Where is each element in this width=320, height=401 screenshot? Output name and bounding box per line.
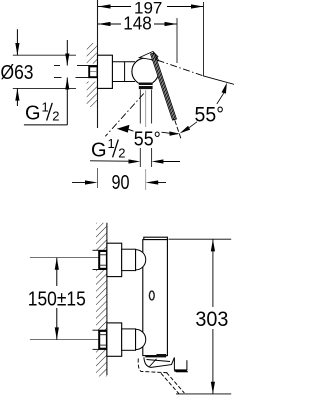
- svg-text:1: 1: [108, 136, 115, 151]
- G1/2 outlet leader + arrows: [90, 159, 180, 163]
- dimension D63 extension lines: [13, 55, 76, 88]
- wall hatch top view: [87, 43, 98, 107]
- outlet assembly (bottom view): [144, 354, 188, 372]
- outlet dashed coupling outline: [138, 359, 184, 394]
- dimension 150+-15: [55, 258, 59, 340]
- lever dash-dot up position: [158, 60, 235, 84]
- extension line x=177: [176, 18, 178, 63]
- svg-text:2: 2: [52, 109, 59, 124]
- top union escutcheon: [107, 243, 122, 276]
- dimension 197 text: [134, 0, 162, 17]
- svg-text:148: 148: [123, 14, 152, 34]
- angle 55 right label: [195, 104, 225, 127]
- pipe behind wall bottom inlet: [93, 330, 107, 349]
- svg-text:150±15: 150±15: [28, 288, 86, 311]
- escutcheon (top view): [98, 55, 113, 88]
- wall line top view: [97, 0, 99, 188]
- svg-text:303: 303: [195, 308, 228, 331]
- inlet thread block (top view): [89, 66, 97, 77]
- inlet centerline bottom (150 ext): [30, 339, 100, 341]
- body cylinder (top view): [112, 62, 135, 82]
- G1/2 leader (inlet label): [24, 78, 67, 125]
- G1/2 label (outlet): [91, 136, 125, 161]
- G1/2 text (inlet): [25, 99, 59, 124]
- dimension 148 line: [98, 22, 177, 26]
- dimension D63 arrows: [15, 29, 19, 106]
- bottom union dome: [136, 329, 146, 349]
- inlet pipe behind wall (top view): [86, 66, 98, 78]
- dimension 303 text: [195, 308, 228, 331]
- dimension 150+-15 text: [28, 288, 86, 311]
- svg-text:Ø63: Ø63: [1, 62, 34, 84]
- lever axis extension dashed: [175, 120, 182, 139]
- cartridge ball (top view): [132, 58, 159, 85]
- bottom union escutcheon: [107, 323, 122, 356]
- inlet centerline top (150 ext): [30, 257, 100, 259]
- dimension 303: [169, 239, 232, 394]
- outlet centerline gray: [145, 90, 147, 190]
- extension line x=203.5: [203, 2, 205, 77]
- pipe behind wall top inlet: [93, 250, 107, 269]
- top union dome: [136, 250, 146, 270]
- svg-text:G: G: [91, 140, 107, 162]
- svg-text:G: G: [25, 103, 41, 125]
- dimension D63 text: [1, 62, 34, 84]
- top union nut: [122, 249, 136, 270]
- lever handle solid (top view): [139, 51, 176, 120]
- dimension 90: [72, 180, 166, 184]
- svg-text:55°: 55°: [134, 129, 161, 151]
- outlet nut under ball (top view): [139, 83, 153, 90]
- svg-text:90: 90: [112, 172, 130, 194]
- thread block bottom inlet: [99, 331, 107, 349]
- bottom union nut: [122, 329, 136, 350]
- thread block top inlet: [99, 251, 107, 269]
- angle 55 left arcs + arrows: [117, 125, 180, 136]
- angle 55 left label: [134, 129, 161, 151]
- dimension 148 text: [123, 14, 152, 34]
- wall hatch bottom view: [96, 223, 107, 377]
- dimension 197 line: [98, 4, 204, 8]
- angle 55 right arcs + arrows: [180, 83, 227, 134]
- svg-text:1: 1: [42, 99, 49, 114]
- body (bottom view): [143, 237, 168, 355]
- wall line bottom view: [106, 223, 108, 375]
- grohe logo mark: [149, 291, 154, 300]
- svg-text:2: 2: [118, 146, 125, 161]
- svg-text:55°: 55°: [195, 104, 225, 127]
- lever dash-dot left position: [105, 94, 144, 137]
- outlet extension lines (top view): [140, 90, 151, 168]
- G1/2 dim arrows (inlet): [54, 40, 86, 90]
- dimension 90 text: [112, 172, 130, 194]
